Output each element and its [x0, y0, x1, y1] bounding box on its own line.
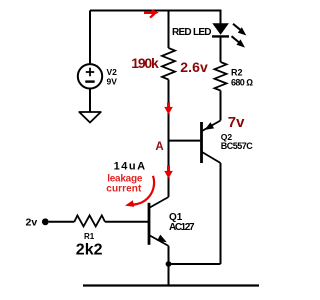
svg-text:current: current: [106, 184, 142, 195]
wire 190k to node A and Q1 collector: [168, 80, 170, 198]
wire node A to Q2 base: [169, 140, 201, 142]
voltage source V2: [78, 64, 102, 88]
leakage current curved arrow: [125, 176, 154, 207]
ground: [79, 112, 101, 123]
wire Q2 collector drop: [220, 163, 222, 264]
current arrow (red) above node A: [164, 103, 173, 115]
svg-text:2k2: 2k2: [76, 242, 103, 259]
wire top rail from V2 to LED branch: [90, 11, 221, 24]
current arrow (red) below node A: [164, 166, 173, 179]
LED light arrow lower: [232, 36, 246, 47]
resistor 190k: [162, 48, 175, 80]
node 2v terminal: [42, 218, 49, 225]
LED light arrow upper: [233, 24, 246, 36]
svg-text:BC557C: BC557C: [221, 141, 254, 151]
svg-text:14uA: 14uA: [114, 161, 146, 173]
transistor Q2 (PNP): [202, 121, 221, 164]
svg-text:680 Ω: 680 Ω: [231, 77, 253, 87]
svg-text:RED LED: RED LED: [172, 27, 212, 38]
svg-text:V2: V2: [107, 67, 118, 77]
svg-text:R1: R1: [84, 232, 95, 241]
svg-text:R2: R2: [231, 68, 243, 78]
wire R2 to LED: [220, 37, 222, 62]
resistor R1: [74, 215, 105, 226]
svg-text:2.6v: 2.6v: [180, 59, 208, 75]
svg-text:2v: 2v: [26, 216, 38, 228]
wire 190k branch from top rail: [168, 11, 170, 49]
svg-text:9V: 9V: [107, 76, 118, 86]
wire junction to Q2 collector drop: [169, 263, 221, 265]
LED D1: [212, 23, 229, 36]
ground rail: [83, 284, 259, 286]
wire Q1 emitter down to ground rail: [168, 246, 170, 286]
transistor Q1 (NPN): [149, 197, 169, 246]
wire Q2 emitter to R2: [220, 91, 222, 121]
resistor R2: [215, 62, 227, 91]
red flow arrow on top rail: [144, 9, 159, 17]
junction node Q1 emitter / Q2 collector: [166, 261, 172, 267]
svg-text:190k: 190k: [131, 55, 159, 71]
wire R1 to Q1 base: [105, 221, 148, 223]
wire left drop from top rail to V2: [89, 11, 91, 65]
svg-text:7v: 7v: [228, 114, 245, 131]
wire 2v terminal to R1: [49, 221, 75, 223]
svg-text:AC127: AC127: [169, 222, 195, 233]
wire V2 to ground: [89, 89, 91, 113]
svg-text:A: A: [155, 141, 163, 153]
